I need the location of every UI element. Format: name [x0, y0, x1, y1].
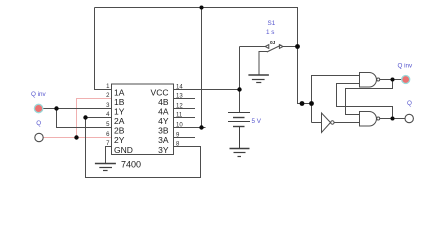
wire battery plus riser	[239, 47, 241, 113]
IC right labels	[151, 88, 169, 155]
svg-text:S1: S1	[268, 20, 276, 27]
IC pin numbers left	[106, 84, 110, 147]
wire pin14 to battery	[174, 89, 240, 91]
wire pin9 stub	[174, 137, 196, 139]
svg-text:14: 14	[176, 84, 183, 90]
node battery / pin14	[237, 87, 241, 91]
IC pin numbers right	[176, 84, 183, 147]
ground under switch	[248, 75, 269, 83]
svg-text:VCC: VCC	[151, 88, 169, 98]
probe Q right (open)	[405, 114, 413, 122]
node pin10	[199, 125, 203, 129]
probe Q left (open)	[35, 133, 43, 141]
wire switch right to node	[283, 46, 298, 48]
svg-text:2B: 2B	[114, 126, 125, 136]
wire NOT input	[312, 122, 322, 124]
switch S1	[259, 45, 283, 75]
wire NAND1 output	[380, 79, 402, 81]
svg-text:4A: 4A	[158, 107, 169, 117]
svg-text:11: 11	[176, 112, 183, 118]
svg-text:1Y: 1Y	[114, 107, 125, 117]
wire pink riser to pin2	[77, 99, 112, 138]
wire NAND1 top input from switch node	[312, 76, 360, 123]
svg-text:12: 12	[176, 103, 183, 109]
svg-text:Q: Q	[407, 100, 412, 107]
NAND gate U3A bottom	[360, 112, 380, 127]
svg-text:1 s: 1 s	[266, 29, 274, 36]
svg-text:3A: 3A	[158, 135, 169, 145]
svg-text:3B: 3B	[158, 126, 169, 136]
wire branch to pin5	[57, 109, 112, 128]
svg-text:10: 10	[176, 122, 183, 128]
node mid A	[300, 101, 305, 106]
wire pink Q probe to pin6	[43, 99, 111, 138]
svg-text:4Y: 4Y	[158, 116, 169, 126]
svg-text:Q inv: Q inv	[398, 62, 414, 69]
IC left labels	[114, 88, 133, 155]
wire pin1 riser	[95, 8, 112, 90]
ground at pin7	[95, 164, 116, 171]
wire top rail to pin10 riser	[201, 8, 203, 128]
svg-text:0J: 0J	[270, 40, 276, 46]
wire Qinv probe to pin3	[43, 108, 112, 110]
svg-text:3Y: 3Y	[158, 145, 169, 155]
svg-text:13: 13	[176, 93, 183, 99]
svg-text:1B: 1B	[114, 97, 125, 107]
probe Q inv left (red)	[34, 104, 42, 112]
wire cross Qinv to NAND2 top input	[346, 80, 393, 115]
node mid B	[309, 101, 314, 106]
svg-text:1A: 1A	[114, 88, 125, 98]
IC U1 7400 box	[112, 84, 174, 155]
svg-text:5 V: 5 V	[252, 118, 262, 125]
svg-text:Q: Q	[36, 120, 41, 127]
node pin4 feedback	[83, 115, 87, 119]
svg-text:2A: 2A	[114, 116, 125, 126]
node pin3 branch	[54, 106, 58, 110]
wire pin12 stub	[174, 108, 196, 110]
wire pin11 stub	[174, 117, 196, 119]
wire cross Q to NAND1 bottom input	[337, 84, 393, 119]
svg-text:7400: 7400	[121, 160, 141, 170]
wire top rail from pin1 riser to switch node	[95, 8, 312, 104]
node switch output	[295, 44, 300, 49]
wire switch left	[240, 46, 266, 48]
node NAND2 output	[391, 117, 395, 121]
wire pin4 to 3Y feedback	[86, 118, 201, 178]
wire pin7 to ground	[106, 147, 112, 164]
node top rail / pin10 riser	[200, 6, 204, 10]
NAND gate U2A top	[360, 73, 380, 88]
wire NOT output to NAND2 bottom input	[334, 122, 359, 124]
node pink riser	[74, 135, 78, 139]
svg-text:4B: 4B	[158, 97, 169, 107]
battery V1 5V	[228, 113, 250, 149]
svg-text:GND: GND	[114, 145, 133, 155]
svg-text:Q inv: Q inv	[31, 91, 47, 98]
NOT gate U4A	[322, 113, 335, 133]
probe Q inv right (red)	[402, 76, 410, 84]
node NAND1 output	[391, 78, 395, 82]
ground under battery	[230, 149, 250, 157]
svg-text:2Y: 2Y	[114, 135, 125, 145]
wire pin13 stub	[174, 98, 196, 100]
wire NAND2 output	[380, 118, 405, 120]
wire pin10 stub	[174, 127, 206, 129]
